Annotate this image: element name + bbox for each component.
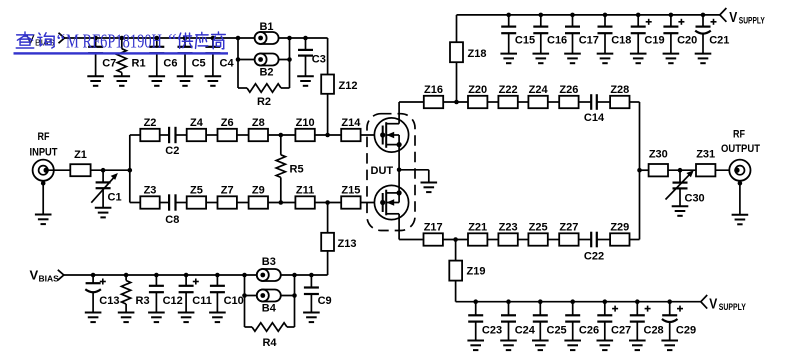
- svg-text:Z30: Z30: [649, 149, 668, 161]
- capacitor C2: [165, 127, 179, 157]
- svg-text:C23: C23: [482, 325, 502, 337]
- svg-text:Z5: Z5: [190, 185, 203, 197]
- wire input to Z1: [46, 169, 70, 171]
- svg-text:Z3: Z3: [144, 185, 157, 197]
- svg-text:C22: C22: [584, 251, 604, 263]
- svg-text:C13: C13: [99, 295, 119, 307]
- resistor R1: [114, 36, 146, 86]
- wire top bias rail: [65, 37, 328, 39]
- matching network Z15: [341, 185, 360, 209]
- wire Z23-Z25: [517, 239, 528, 241]
- matching network Z5: [187, 185, 206, 209]
- wire split to Z3: [130, 202, 141, 204]
- svg-text:Z8: Z8: [252, 117, 265, 129]
- svg-text:Z26: Z26: [559, 84, 578, 96]
- resistor R3: [118, 273, 150, 322]
- capacitor C18: [597, 13, 632, 64]
- svg-text:C4: C4: [220, 58, 235, 70]
- wire Z11-Z15: [315, 200, 342, 205]
- ground DUT source: [399, 170, 437, 192]
- wire Z22-Z24: [517, 101, 528, 103]
- capacitor C19: [630, 13, 665, 64]
- wire Z26-C14: [578, 101, 591, 103]
- matching network Z30: [649, 149, 668, 177]
- wire C2-Z4: [176, 134, 187, 136]
- svg-text:Z25: Z25: [529, 222, 548, 234]
- capacitor C16: [533, 13, 568, 64]
- matching network Z11: [295, 185, 314, 209]
- wire Z28 to output node: [629, 102, 639, 170]
- wire bead branch B3 left: [242, 273, 247, 327]
- svg-text:C27: C27: [611, 325, 631, 337]
- svg-text:Z4: Z4: [190, 117, 204, 129]
- svg-text:Z2: Z2: [144, 117, 157, 129]
- svg-text:Z16: Z16: [424, 84, 443, 96]
- wire drain to Z17: [399, 239, 423, 241]
- matching network Z1: [70, 149, 90, 176]
- matching network Z31: [696, 149, 715, 177]
- matching network Z27: [559, 222, 578, 246]
- svg-text:Z6: Z6: [221, 117, 234, 129]
- matching network Z14: [341, 117, 361, 141]
- label DUT: [369, 164, 394, 178]
- svg-text:R5: R5: [290, 164, 304, 176]
- label RF OUTPUT: [721, 129, 760, 156]
- ground input connector: [35, 181, 52, 224]
- svg-text:RF: RF: [733, 129, 745, 141]
- power terminal V_SUPPLY (top right): [720, 8, 765, 27]
- svg-text:Z14: Z14: [341, 117, 361, 129]
- matching network Z28: [610, 84, 629, 108]
- matching network Z17: [424, 222, 443, 246]
- wire Z7-Z9: [237, 202, 249, 204]
- svg-text:C14: C14: [584, 112, 605, 124]
- svg-text:Z9: Z9: [252, 185, 265, 197]
- svg-text:C18: C18: [611, 35, 631, 47]
- variable capacitor C1: [91, 170, 121, 217]
- capacitor C3: [297, 36, 326, 86]
- wire Z4-Z6: [206, 134, 217, 136]
- capacitor C11: [178, 273, 212, 322]
- resistor R4: [245, 323, 295, 349]
- wire node to Z30: [640, 169, 649, 171]
- transistor upper half of DUT: [374, 118, 408, 152]
- label RF INPUT: [30, 131, 58, 159]
- svg-text:C28: C28: [644, 325, 664, 337]
- wire C14-Z28: [597, 101, 611, 103]
- svg-text:“: “: [57, 31, 66, 52]
- svg-text:C29: C29: [676, 325, 696, 337]
- wire split to Z2: [130, 134, 141, 136]
- matching network Z10: [295, 117, 314, 141]
- power terminal V_BIAS: [30, 268, 64, 284]
- ferrite bead B1: [255, 21, 279, 44]
- capacitor C4: [205, 36, 235, 86]
- inductor Z19: [449, 240, 485, 302]
- svg-text:V: V: [30, 268, 39, 283]
- power terminal V_SUPPLY (bottom right): [701, 295, 746, 313]
- connector RF INPUT: [33, 160, 54, 181]
- matching network Z8: [249, 117, 268, 141]
- svg-text:Z23: Z23: [499, 222, 518, 234]
- wire Z29 to output node: [629, 170, 639, 239]
- svg-text:M RF6P18190H: M RF6P18190H: [66, 31, 162, 52]
- svg-text:Z19: Z19: [467, 266, 486, 278]
- wire Z16-Z20: [443, 101, 468, 103]
- ground output connector: [732, 181, 749, 225]
- matching network Z20: [468, 84, 487, 108]
- svg-text:C12: C12: [163, 295, 183, 307]
- matching network Z25: [528, 222, 547, 246]
- wire Z10-Z14: [315, 133, 342, 138]
- svg-text:C24: C24: [515, 325, 536, 337]
- matching network Z29: [610, 222, 629, 246]
- wire V_SUPPLY bottom rail: [456, 301, 701, 303]
- svg-text:C11: C11: [192, 295, 212, 307]
- svg-text:BIAS: BIAS: [39, 274, 60, 284]
- ferrite bead B2: [238, 54, 290, 79]
- svg-text:C5: C5: [192, 58, 206, 70]
- svg-text:Z27: Z27: [559, 222, 578, 234]
- wire Z14 to gate: [361, 134, 383, 136]
- wire bead branch B3 right: [292, 273, 297, 327]
- capacitor C29: [661, 299, 696, 350]
- wire Z1 to split: [91, 169, 130, 171]
- capacitor C27: [597, 299, 632, 350]
- wire Z8-Z10: [268, 133, 295, 138]
- svg-text:V: V: [709, 295, 717, 312]
- svg-text:C16: C16: [547, 35, 567, 47]
- svg-text:Z24: Z24: [529, 84, 549, 96]
- wire common source: [397, 145, 402, 193]
- svg-text:B1: B1: [259, 21, 273, 33]
- capacitor C22: [584, 232, 604, 263]
- capacitor C12: [148, 273, 183, 322]
- wire input splitter: [128, 135, 133, 203]
- svg-text:RF: RF: [38, 131, 50, 143]
- capacitor C17: [564, 13, 599, 64]
- variable capacitor C30: [666, 170, 705, 216]
- matching network Z21: [468, 222, 487, 246]
- wire Z6-Z8: [237, 134, 249, 136]
- svg-text:Z10: Z10: [296, 117, 315, 129]
- wire Z30-Z31: [668, 169, 696, 171]
- DUT package outline: [367, 114, 415, 231]
- svg-text:Z21: Z21: [468, 222, 487, 234]
- svg-text:Z11: Z11: [296, 185, 314, 197]
- svg-text:Z28: Z28: [610, 84, 629, 96]
- capacitor C26: [564, 299, 599, 350]
- svg-text:R1: R1: [132, 58, 146, 70]
- inductor Z18: [450, 15, 486, 102]
- matching network Z9: [249, 185, 268, 209]
- svg-text:C19: C19: [644, 35, 664, 47]
- node Z18 tap: [454, 100, 459, 105]
- svg-text:C10: C10: [224, 295, 244, 307]
- wire lower drain: [398, 214, 400, 240]
- svg-text:C9: C9: [318, 295, 332, 307]
- wire Z25-Z27: [547, 239, 559, 241]
- wire C22-Z29: [597, 239, 611, 241]
- matching network Z7: [218, 185, 237, 209]
- matching network Z2: [140, 117, 159, 141]
- svg-text:INPUT: INPUT: [30, 147, 58, 159]
- capacitor C24: [500, 299, 536, 350]
- svg-text:Z31: Z31: [696, 149, 715, 161]
- svg-text:DUT: DUT: [371, 165, 394, 177]
- node output combiner: [637, 168, 642, 173]
- svg-text:C6: C6: [163, 58, 177, 70]
- svg-text:Z22: Z22: [499, 84, 518, 96]
- svg-text:C15: C15: [515, 35, 535, 47]
- wire upper drain: [398, 102, 400, 124]
- capacitor C28: [629, 299, 664, 350]
- wire drain to Z16: [399, 101, 424, 103]
- svg-text:Z20: Z20: [468, 84, 487, 96]
- capacitor C21: [695, 13, 730, 64]
- resistor R5: [276, 135, 303, 203]
- svg-text:C7: C7: [102, 58, 116, 70]
- svg-text:C26: C26: [579, 325, 599, 337]
- svg-text:Z17: Z17: [424, 222, 443, 234]
- wire Z3-C8: [160, 202, 169, 204]
- capacitor C14: [584, 94, 605, 124]
- matching network Z22: [498, 84, 517, 108]
- svg-text:C20: C20: [677, 35, 697, 47]
- svg-text:B3: B3: [262, 256, 276, 268]
- svg-text:R4: R4: [262, 337, 277, 349]
- svg-text:Z29: Z29: [610, 222, 629, 234]
- matching network Z26: [559, 84, 578, 108]
- wire Z31 to output: [715, 169, 737, 171]
- svg-text:Z13: Z13: [338, 238, 357, 250]
- svg-text:C21: C21: [709, 35, 729, 47]
- svg-text:B4: B4: [262, 303, 277, 315]
- hyperlink overlay (Chinese supplier link): [14, 31, 229, 54]
- power terminal V_BIAS (top left, behind link): [26, 32, 65, 48]
- transistor lower half of DUT: [374, 185, 408, 219]
- capacitor C15: [500, 13, 535, 64]
- capacitor C25: [532, 299, 567, 350]
- matching network Z6: [218, 117, 237, 141]
- wire Z21-Z23: [487, 239, 499, 241]
- wire Z5-Z7: [206, 202, 217, 204]
- svg-text:OUTPUT: OUTPUT: [721, 143, 760, 155]
- svg-text:V: V: [729, 9, 737, 26]
- resistor R2: [238, 84, 290, 108]
- svg-text:B2: B2: [259, 67, 273, 79]
- matching network Z24: [528, 84, 548, 108]
- wire Z9-Z11: [268, 200, 295, 205]
- ferrite bead B4: [245, 290, 295, 315]
- svg-text:C1: C1: [108, 192, 122, 204]
- svg-text:C3: C3: [312, 54, 326, 66]
- wire Z27-C22: [578, 239, 591, 241]
- capacitor C8: [165, 194, 179, 226]
- node C1 tap: [101, 168, 106, 173]
- svg-text:Z12: Z12: [339, 80, 358, 92]
- svg-text:Z7: Z7: [221, 185, 234, 197]
- ferrite bead B3: [257, 256, 281, 281]
- svg-text:SUPPLY: SUPPLY: [739, 16, 765, 27]
- wire Z2-C2: [160, 134, 169, 136]
- svg-text:R2: R2: [257, 96, 271, 108]
- capacitor C6: [149, 36, 178, 86]
- capacitor C7: [87, 36, 116, 86]
- svg-text:Z15: Z15: [341, 185, 360, 197]
- capacitor C9: [303, 273, 332, 322]
- matching network Z23: [498, 222, 517, 246]
- svg-text:“: “: [168, 31, 177, 52]
- capacitor C13: [85, 273, 120, 322]
- inductor Z13: [321, 203, 356, 276]
- wire Z17-Z21: [443, 237, 469, 242]
- svg-text:C2: C2: [165, 145, 179, 157]
- inductor Z12: [321, 38, 357, 135]
- svg-text:SUPPLY: SUPPLY: [719, 302, 746, 313]
- svg-text:C17: C17: [579, 35, 599, 47]
- matching network Z16: [424, 84, 443, 108]
- svg-text:C30: C30: [685, 193, 705, 205]
- matching network Z3: [140, 185, 159, 209]
- svg-text:Z18: Z18: [468, 48, 487, 60]
- svg-text:C8: C8: [165, 214, 179, 226]
- wire V_BIAS rail: [64, 274, 328, 276]
- node C30 tap: [678, 168, 683, 173]
- svg-text:C25: C25: [547, 325, 567, 337]
- svg-text:Z1: Z1: [74, 149, 87, 161]
- capacitor C23: [467, 299, 502, 350]
- wire Z20-Z22: [487, 101, 499, 103]
- svg-text:R3: R3: [136, 295, 150, 307]
- wire Z24-Z26: [547, 101, 559, 103]
- matching network Z4: [187, 117, 206, 141]
- capacitor C10: [209, 273, 244, 322]
- wire C8-Z5: [176, 202, 187, 204]
- wire bead branch right: [287, 36, 292, 88]
- connector RF OUTPUT: [729, 160, 750, 181]
- capacitor C20: [663, 13, 698, 64]
- capacitor C5: [177, 36, 206, 86]
- wire V_SUPPLY top rail: [457, 14, 720, 16]
- wire Z15 to gate: [361, 202, 383, 204]
- wire bead branch left: [236, 36, 241, 88]
